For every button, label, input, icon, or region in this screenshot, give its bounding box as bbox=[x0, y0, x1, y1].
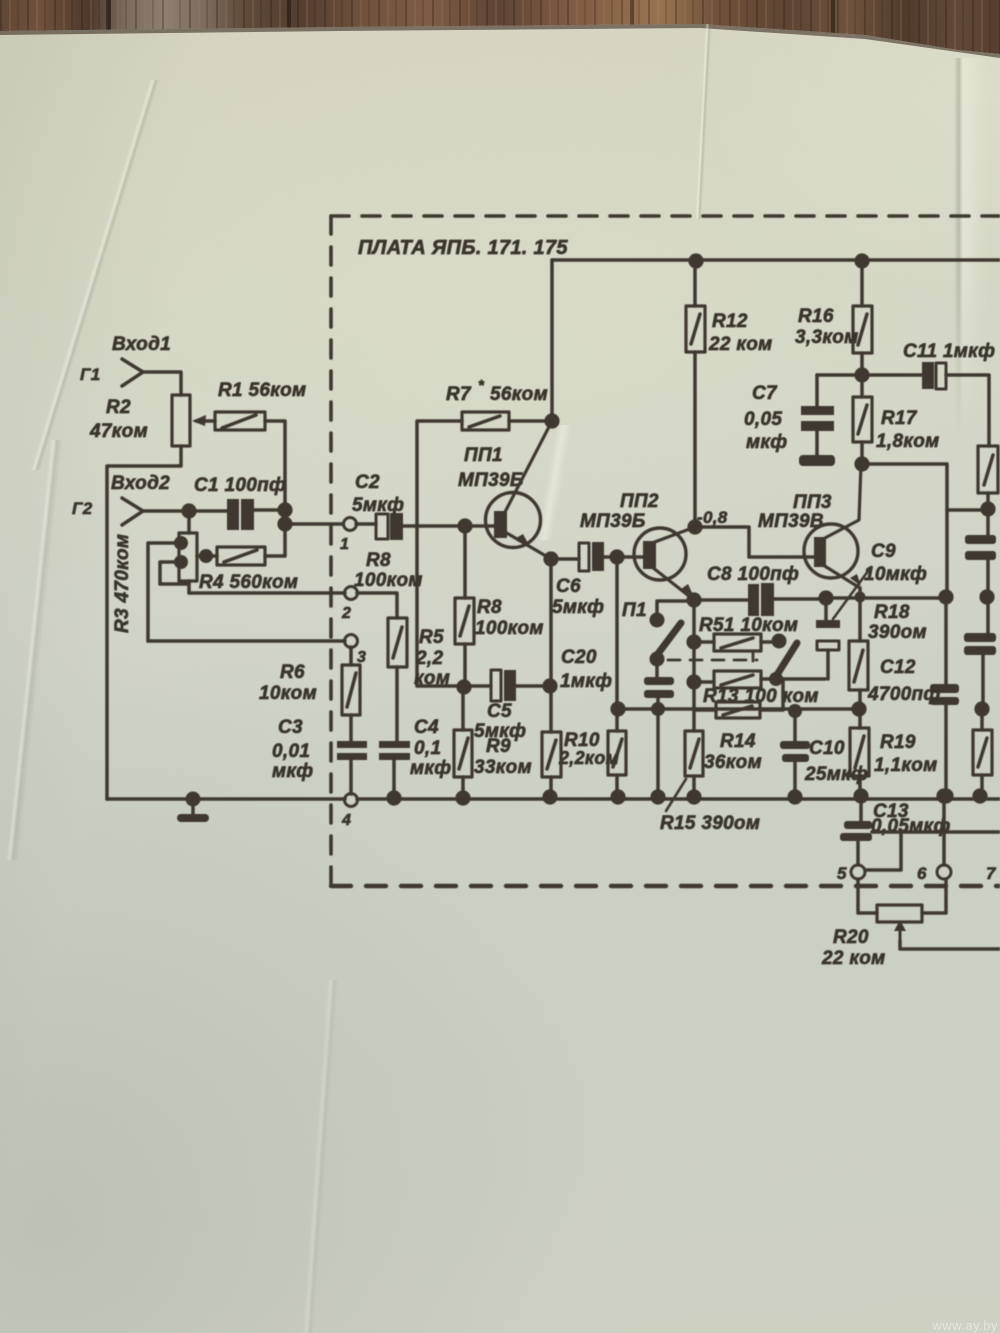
wire R17 node to right riser bbox=[862, 464, 947, 590]
svg-text:2: 2 bbox=[341, 605, 351, 622]
resistor R13 100ком bbox=[686, 674, 701, 689]
node feedback/R9 bbox=[456, 679, 471, 694]
resistor (lower, to node) bbox=[694, 708, 716, 712]
wire R8 bottom to feedback line bbox=[463, 644, 467, 687]
bus junction dots bbox=[386, 790, 401, 805]
pin 2 bbox=[345, 587, 358, 600]
node R3 tap upper bbox=[174, 536, 188, 550]
capacitor C5 5мкф bbox=[491, 670, 501, 701]
capacitor (right edge lower) bbox=[986, 597, 990, 633]
svg-text:0,1: 0,1 bbox=[414, 738, 441, 759]
label R15 390ом with leader bbox=[666, 779, 686, 811]
svg-text:С1 100пф: С1 100пф bbox=[194, 475, 286, 496]
svg-text:ком: ком bbox=[414, 668, 450, 689]
wire: top supply bus bbox=[552, 258, 1000, 262]
capacitor C12 4700пф bbox=[930, 684, 959, 693]
pin 6 bbox=[937, 865, 951, 879]
svg-text:Г2: Г2 bbox=[72, 499, 93, 518]
node right on wire bbox=[979, 589, 994, 604]
svg-text:R19: R19 bbox=[880, 732, 916, 753]
node cap/lower wire bbox=[651, 702, 665, 716]
wire to pin 1 bbox=[285, 522, 343, 526]
node R16/C11/C7 bbox=[854, 367, 869, 382]
capacitor C7 0,05мкф bbox=[817, 373, 855, 377]
svg-text:1: 1 bbox=[340, 536, 349, 553]
svg-text:R15 390ом: R15 390ом bbox=[660, 813, 760, 834]
svg-text:1мкф: 1мкф bbox=[560, 671, 612, 692]
capacitor C3 0,01мкф bbox=[349, 715, 353, 741]
svg-text:R3 470ком: R3 470ком bbox=[112, 534, 133, 633]
svg-text:22 ком: 22 ком bbox=[821, 948, 886, 969]
input arrow Г2 bbox=[122, 498, 143, 525]
svg-text:R6: R6 bbox=[280, 662, 305, 683]
node y597 right bbox=[938, 589, 953, 604]
wire collector to R12 bbox=[693, 352, 697, 527]
node right column bbox=[980, 501, 995, 516]
svg-text:0,05мкф: 0,05мкф bbox=[871, 816, 951, 837]
capacitor C2 5мкф electrolytic bbox=[356, 522, 376, 526]
node collector ПП2 bbox=[687, 519, 702, 534]
svg-text:2,2ком: 2,2ком bbox=[558, 748, 619, 768]
svg-text:ПП1: ПП1 bbox=[464, 445, 503, 466]
wire R7 right to collector node bbox=[509, 419, 552, 423]
svg-text:1,8ком: 1,8ком bbox=[876, 431, 940, 452]
wire tap lower short loop bbox=[160, 562, 189, 584]
wire pin5 to right bbox=[865, 833, 901, 870]
svg-text:47ком: 47ком bbox=[89, 421, 148, 442]
capacitor C10 25мкф bbox=[793, 711, 797, 741]
svg-text:С4: С4 bbox=[414, 717, 439, 738]
pin 1 bbox=[344, 518, 357, 531]
node base ПП1 junction bbox=[457, 518, 472, 533]
wire П1 right pole to C9 bbox=[776, 677, 825, 681]
wire base node down to R8 bbox=[463, 526, 467, 598]
svg-text:ПП2: ПП2 bbox=[620, 491, 659, 512]
wire node A down to pin1 wire bbox=[283, 510, 287, 524]
wire pin2 line bbox=[189, 591, 345, 595]
svg-text:R7: R7 bbox=[446, 384, 472, 405]
resistor R16 3,3ком bbox=[854, 253, 869, 268]
potentiometer R20 22ком bbox=[858, 879, 877, 913]
wire emitter ПП2 down bbox=[692, 600, 696, 731]
svg-text:R51 10ком: R51 10ком bbox=[699, 615, 798, 636]
svg-text:56ком: 56ком bbox=[490, 384, 548, 405]
resistor R2 (47к) bbox=[172, 395, 190, 446]
resistor R14 36ком bbox=[685, 731, 703, 776]
node A junction C1/R1 bbox=[277, 502, 292, 517]
svg-text:R18: R18 bbox=[874, 602, 910, 623]
svg-text:С8 100пф: С8 100пф bbox=[707, 564, 799, 585]
svg-text:Вход2: Вход2 bbox=[111, 473, 170, 494]
svg-text:МП39Б: МП39Б bbox=[580, 511, 646, 532]
svg-text:3,3ком: 3,3ком bbox=[795, 327, 859, 348]
wire R2 bottom to left rail bbox=[107, 446, 181, 799]
svg-text:R1 56ком: R1 56ком bbox=[218, 380, 306, 401]
svg-text:Г1: Г1 bbox=[80, 365, 101, 384]
svg-text:4: 4 bbox=[341, 812, 351, 829]
svg-text:С11 1мкф: С11 1мкф bbox=[903, 341, 995, 362]
svg-text:390ом: 390ом bbox=[868, 622, 927, 643]
resistor R18 390ом bbox=[849, 641, 868, 690]
capacitor (П1 left pole to bus) bbox=[655, 666, 659, 677]
mechanical link dashes П1 bbox=[752, 652, 755, 661]
svg-text:5: 5 bbox=[837, 864, 847, 883]
svg-text:R2: R2 bbox=[106, 397, 131, 418]
capacitor (right edge upper) bbox=[986, 509, 990, 535]
board outline ПЛАТА ЯПБ.171.175 (dashed border) bbox=[331, 216, 1000, 886]
wire R3 bottom to pin2 line bbox=[187, 581, 191, 593]
node junction Г2/R3 bbox=[181, 503, 196, 518]
svg-text:R8: R8 bbox=[477, 597, 502, 618]
svg-text:10ком: 10ком bbox=[259, 683, 317, 704]
wire emitter down to R10 bbox=[549, 559, 553, 732]
resistor R5 2,2ком bbox=[357, 593, 397, 618]
resistor R8 100ком bbox=[455, 598, 474, 644]
node emitter ПП2 bbox=[686, 592, 701, 607]
resistor R19 1,1ком bbox=[858, 709, 862, 728]
svg-text:36ком: 36ком bbox=[704, 752, 762, 773]
svg-text:22 ком: 22 ком bbox=[708, 334, 773, 355]
wire emitter ПП3 bbox=[858, 588, 862, 641]
node emitter ПП1 bbox=[543, 551, 558, 566]
svg-text:ПП3: ПП3 bbox=[793, 492, 832, 513]
svg-text:0,01: 0,01 bbox=[272, 741, 310, 762]
node collector ПП1 bbox=[544, 413, 559, 428]
wire lower horizontal run bbox=[618, 707, 859, 711]
svg-text:С7: С7 bbox=[752, 383, 778, 404]
node base ПП2 bbox=[609, 549, 624, 564]
capacitor C6 5мкф bbox=[551, 557, 579, 561]
resistor (right edge, C11 path) bbox=[978, 446, 998, 493]
wire pin3 line bbox=[148, 639, 345, 643]
switch blade П1 left bbox=[654, 623, 681, 659]
node R17 bottom bbox=[854, 456, 869, 471]
resistor R6 10ком bbox=[349, 647, 353, 665]
svg-text:мкф: мкф bbox=[410, 758, 451, 779]
wire pin6 riser bbox=[936, 788, 951, 803]
capacitor C4 0,1мкф bbox=[395, 667, 399, 741]
svg-text:С2: С2 bbox=[355, 472, 380, 493]
wire П1 contact to emitter node bbox=[657, 601, 694, 613]
node right lower bbox=[974, 701, 989, 716]
svg-text:С3: С3 bbox=[278, 717, 303, 738]
svg-text:100ком: 100ком bbox=[354, 570, 423, 591]
resistor R17 1,8ком bbox=[860, 375, 864, 397]
wire C8 node to right bbox=[826, 596, 940, 600]
svg-text:С10: С10 bbox=[809, 738, 845, 759]
svg-text:6: 6 bbox=[917, 864, 927, 883]
svg-text:МП39Б: МП39Б bbox=[458, 470, 524, 491]
node П1 contact bbox=[650, 613, 665, 628]
node C8 out bbox=[818, 590, 833, 605]
wire R7 left down to feedback line bbox=[417, 421, 491, 686]
svg-text:С9: С9 bbox=[871, 541, 896, 562]
svg-text:2,2: 2,2 bbox=[415, 648, 443, 669]
resistor R1 56ком (fed from R2 wiper arrow) bbox=[196, 419, 215, 423]
svg-text:П1: П1 bbox=[622, 600, 647, 621]
svg-text:R5: R5 bbox=[419, 627, 444, 648]
wire base node down bbox=[615, 557, 619, 709]
svg-text:R4 560ком: R4 560ком bbox=[199, 572, 298, 593]
pin 4 bbox=[345, 794, 358, 807]
capacitor C11 1мкф bbox=[868, 373, 922, 377]
svg-text:0,05: 0,05 bbox=[744, 409, 782, 430]
wire Г1 to R2 bbox=[143, 372, 181, 395]
svg-text:7: 7 bbox=[986, 864, 997, 883]
capacitor C1 100пф bbox=[227, 499, 239, 530]
capacitor C9 10мкф bbox=[824, 604, 828, 622]
svg-text:-0,8: -0,8 bbox=[697, 508, 728, 527]
svg-text:С6: С6 bbox=[556, 576, 581, 597]
potentiometer R3 470ком body bbox=[187, 511, 191, 533]
wire: riser collector ПП1 to bus bbox=[550, 260, 554, 421]
svg-text:4700пф: 4700пф bbox=[867, 684, 940, 705]
switch blade П1 right bbox=[775, 643, 797, 678]
pin 5 bbox=[851, 865, 865, 879]
svg-text:С12: С12 bbox=[880, 657, 916, 678]
capacitor C8 100пф bbox=[748, 584, 759, 616]
svg-text:33ком: 33ком bbox=[474, 757, 532, 778]
svg-text:R12: R12 bbox=[712, 311, 748, 332]
ground symbol bbox=[186, 792, 201, 807]
svg-text:мкф: мкф bbox=[272, 761, 313, 782]
capacitor C13 0,05мкф bbox=[853, 788, 868, 803]
svg-text:R20: R20 bbox=[833, 927, 869, 948]
node B junction to pin 1 bbox=[277, 516, 292, 531]
svg-text:100ком: 100ком bbox=[475, 618, 544, 639]
node R18/R19 bbox=[851, 701, 866, 716]
node emitter/feedback bbox=[542, 678, 557, 693]
pin 3 bbox=[345, 635, 358, 648]
svg-text:R8: R8 bbox=[366, 550, 391, 571]
svg-text:1,1ком: 1,1ком bbox=[874, 755, 938, 776]
svg-text:5мкф: 5мкф bbox=[352, 495, 404, 516]
resistor (right edge lower) bbox=[980, 709, 984, 730]
input arrow Г1 bbox=[122, 359, 143, 386]
wire C1 to node A bbox=[254, 508, 285, 512]
wire tap upper loop to pin3 line bbox=[148, 543, 181, 641]
svg-text:ПЛАТА ЯПБ. 171. 175: ПЛАТА ЯПБ. 171. 175 bbox=[358, 237, 568, 259]
resistor R12 22ком bbox=[686, 306, 705, 352]
ground (C7) bbox=[799, 455, 835, 466]
wire Г2 to C1 bbox=[143, 509, 227, 513]
node R3 tap lower bbox=[174, 555, 188, 569]
resistor R9 33ком bbox=[461, 687, 465, 730]
wire R1 right to node column bbox=[265, 421, 285, 510]
svg-text:С5: С5 bbox=[487, 701, 512, 722]
resistor R51 10ком bbox=[686, 634, 701, 649]
wire C2 to base ПП1 bbox=[403, 524, 494, 528]
wire C12 column bbox=[944, 597, 948, 684]
svg-text:С20: С20 bbox=[561, 647, 597, 668]
svg-text:R16: R16 bbox=[798, 306, 834, 327]
svg-text:25мкф: 25мкф bbox=[804, 764, 868, 785]
svg-text:*: * bbox=[478, 377, 485, 394]
svg-text:5мкф: 5мкф bbox=[552, 597, 604, 618]
svg-text:R17: R17 bbox=[881, 408, 918, 429]
wire bottom ground bus bbox=[107, 797, 345, 801]
resistor R15 (column under C20 node) bbox=[615, 709, 619, 731]
svg-text:10мкф: 10мкф bbox=[864, 564, 927, 585]
wire R4 right up to node B bbox=[265, 531, 285, 556]
node lower wire bbox=[610, 701, 625, 716]
resistor R10 2,2ком bbox=[542, 732, 561, 777]
svg-text:R9: R9 bbox=[486, 736, 511, 757]
svg-text:мкф: мкф bbox=[746, 432, 787, 453]
svg-text:Вход1: Вход1 bbox=[112, 334, 171, 355]
wire collector ПП2 to base ПП3 bbox=[695, 527, 814, 557]
svg-text:R14: R14 bbox=[720, 731, 756, 752]
resistor R4 560ком bbox=[197, 554, 217, 558]
